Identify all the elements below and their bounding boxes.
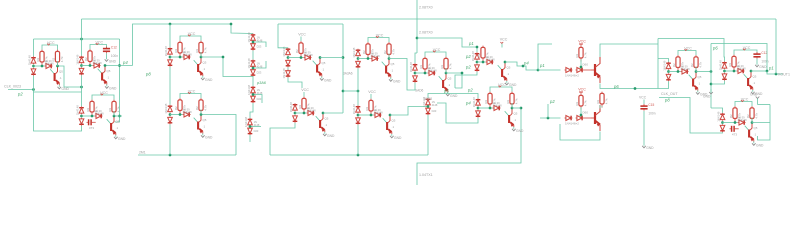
svg-text:C12: C12 — [761, 51, 767, 55]
label XOUT1 — [778, 73, 790, 77]
svg-text:1N4148: 1N4148 — [409, 62, 413, 73]
diode S4b — [248, 127, 259, 135]
diode S1b — [251, 43, 262, 51]
label 1.04TX1 — [419, 173, 433, 177]
wire G5 third diode out — [288, 78, 302, 89]
label p1 drv — [539, 63, 545, 68]
svg-text:R2: R2 — [84, 57, 88, 61]
svg-text:D60: D60 — [583, 111, 589, 115]
node base gate2 — [80, 64, 92, 67]
svg-text:p1: p1 — [539, 63, 545, 68]
svg-text:R2: R2 — [195, 106, 199, 110]
svg-text:R2: R2 — [174, 106, 178, 110]
wire G1 out — [58, 66, 83, 88]
diode D2c series — [93, 58, 103, 68]
transistor Q7 — [439, 72, 452, 92]
diode D12b input — [168, 116, 173, 124]
wire S4 bottom — [249, 135, 251, 142]
capacitor Cb gate11 — [87, 119, 96, 130]
wire H6 out — [323, 112, 343, 114]
svg-text:VCC: VCC — [500, 38, 508, 42]
label 3A3A6 — [343, 72, 353, 76]
wire collector gate12 — [200, 110, 202, 115]
wire C10 down — [756, 59, 758, 63]
svg-text:CLK_0023: CLK_0023 — [4, 85, 21, 89]
svg-text:1N4148: 1N4148 — [737, 67, 747, 71]
diode S2b — [251, 69, 262, 77]
wire S2 tap — [252, 61, 266, 69]
svg-text:GND: GND — [324, 79, 332, 83]
svg-text:·1: ·1 — [107, 76, 110, 80]
wire drv1 out — [600, 81, 669, 90]
node base gate10 — [723, 70, 736, 73]
supply VCC gate6 — [368, 33, 389, 42]
svg-text:1N4148: 1N4148 — [374, 111, 384, 115]
diode D6a input — [352, 47, 360, 58]
svg-text:·1: ·1 — [59, 76, 62, 80]
diode D31a — [565, 116, 573, 121]
wire H5 in a — [711, 108, 723, 113]
ground C15 — [642, 144, 654, 150]
diode D11a input — [76, 105, 84, 116]
transistor Q9 — [689, 70, 702, 90]
supply gnd topright1 — [703, 89, 713, 99]
svg-text:1N4148: 1N4148 — [307, 109, 317, 113]
label 3PA6 — [256, 81, 267, 85]
ground gate11 — [114, 135, 126, 141]
wire drv2 collector link — [599, 105, 601, 109]
wire drv2 in — [540, 117, 561, 120]
transistor Q16 — [316, 112, 329, 132]
transistor Q31 — [584, 105, 601, 131]
svg-text:GND: GND — [327, 134, 335, 138]
capacitor Cb gate15 — [730, 126, 739, 137]
wire C15 gnd — [643, 111, 645, 144]
wire x343 to G6/H3 column — [343, 90, 359, 93]
transistor Q6 — [382, 57, 395, 77]
svg-text:VCC: VCC — [578, 40, 586, 44]
resistor R6b 4.7k — [383, 42, 395, 58]
wire G5 in top — [278, 24, 288, 48]
capacitor C2 100n — [103, 45, 118, 58]
label p2 g8 — [465, 54, 471, 59]
svg-text:·1: ·1 — [203, 67, 206, 71]
supply VCC gate3 — [180, 32, 201, 41]
diode D7b input — [413, 75, 418, 83]
diode D15c series — [738, 115, 748, 125]
svg-text:Q5: Q5 — [322, 61, 326, 65]
svg-text:D23: D23 — [257, 97, 262, 101]
diode D5c series — [304, 50, 314, 60]
supply VCC gate7 — [425, 48, 446, 57]
svg-text:p8: p8 — [145, 72, 151, 77]
svg-text:1N4148: 1N4148 — [738, 118, 748, 122]
svg-text:4.7k: 4.7k — [392, 49, 396, 55]
diode D5b input — [286, 59, 291, 67]
supply VCC gate5 — [298, 32, 306, 41]
node base gate3 — [169, 56, 183, 59]
resistor R31 4.7k — [575, 94, 587, 110]
wire G9 box top — [658, 39, 725, 62]
wire S links — [250, 51, 253, 119]
capacitor C10 100n — [753, 51, 768, 64]
wire S4 tap — [249, 125, 261, 128]
wire G10 out XOUT1 — [751, 70, 783, 76]
label p1 — [468, 41, 474, 46]
diode S2a — [247, 58, 263, 69]
svg-text:R2: R2 — [365, 106, 369, 110]
wire CLK stub — [8, 88, 35, 91]
svg-text:R2: R2 — [596, 99, 600, 103]
svg-text:GND: GND — [205, 78, 213, 82]
svg-text:p1: p1 — [768, 66, 774, 71]
resistor R11b 4.7k — [108, 100, 120, 116]
wire collector gate6 — [388, 54, 390, 59]
svg-text:p4: p4 — [523, 61, 529, 66]
supply VCC C15 — [639, 96, 647, 105]
svg-text:1N4148: 1N4148 — [681, 67, 691, 71]
diode D1b input — [31, 68, 36, 76]
node base gate8 — [476, 61, 486, 64]
svg-text:p6: p6 — [712, 46, 718, 51]
diode D16a input — [289, 102, 297, 113]
resistor R14b 4.7k — [506, 92, 518, 108]
svg-text:1N4148: 1N4148 — [304, 53, 314, 57]
label p6 right — [712, 46, 718, 51]
wire bus x658 — [657, 39, 659, 89]
diode D12a input — [164, 103, 172, 114]
diode D8c series — [486, 55, 496, 65]
svg-text:R2: R2 — [729, 114, 733, 118]
svg-text:Q5: Q5 — [698, 75, 702, 79]
svg-text:1N4148: 1N4148 — [352, 47, 356, 58]
svg-text:Q5: Q5 — [59, 70, 63, 74]
svg-text:4T3: 4T3 — [732, 132, 738, 136]
diode D14a input — [472, 97, 480, 108]
diode D13a input — [352, 104, 360, 115]
svg-text:GND: GND — [62, 87, 70, 91]
svg-text:Q5: Q5 — [391, 62, 395, 66]
svg-text:100n: 100n — [648, 112, 655, 116]
svg-text:1N4148: 1N4148 — [719, 60, 723, 71]
wire G2 out — [105, 65, 133, 67]
wire G2-H1 column — [81, 75, 83, 106]
wire G9 in a — [658, 59, 669, 62]
transistor Q12 — [194, 113, 207, 133]
resistor R15a 4.7k — [729, 106, 741, 124]
svg-text:3A3A6: 3A3A6 — [343, 72, 353, 76]
wire H2 out — [201, 115, 236, 156]
wire G9 out bus x711 — [696, 44, 712, 109]
resistor R9a 4.7k — [672, 55, 684, 73]
resistor R7b 4.7k — [440, 57, 452, 73]
ground capacitor C2 — [105, 58, 117, 64]
svg-text:1N4148: 1N4148 — [282, 68, 286, 79]
wire clock top rail y19 — [82, 18, 777, 20]
wire collector gate9 — [695, 67, 697, 72]
svg-text:100n: 100n — [111, 54, 118, 58]
label 3AD8 — [424, 97, 432, 101]
net 2.08TX0 vertical — [416, 0, 419, 53]
diode D12c series — [183, 107, 193, 117]
svg-text:2M1: 2M1 — [139, 151, 146, 155]
svg-text:4148: 4148 — [432, 103, 438, 107]
wire G2 input riser x81.5 — [81, 19, 83, 56]
transistor Q13 — [383, 114, 396, 134]
resistor R12b 4.7k — [195, 98, 207, 114]
svg-text:1N4148: 1N4148 — [95, 112, 105, 116]
transistor Q15 — [745, 121, 758, 141]
svg-text:·1: ·1 — [753, 81, 756, 85]
svg-text:1N4148: 1N4148 — [247, 32, 251, 43]
diode D3a input — [164, 46, 172, 57]
wire C2 down — [106, 53, 108, 57]
diode D3b input — [168, 59, 173, 67]
svg-text:R2: R2 — [298, 104, 302, 108]
ground gate7 — [446, 92, 458, 98]
svg-text:Q5: Q5 — [754, 126, 758, 130]
diode D14c series — [493, 101, 503, 111]
resistor R8a 4.7k — [477, 46, 489, 64]
diode D16b input — [293, 115, 298, 123]
ground gate9 — [696, 91, 708, 97]
node base gate1 — [32, 65, 44, 68]
svg-text:GND: GND — [118, 137, 126, 141]
diode D6b input — [356, 60, 361, 68]
node base gate16 — [294, 112, 307, 115]
svg-text:GND: GND — [646, 146, 654, 150]
diode D14b input — [476, 110, 481, 118]
svg-text:GND: GND — [756, 144, 764, 148]
svg-text:4.7k: 4.7k — [605, 98, 609, 104]
resistor R16a 4.7k — [298, 97, 310, 115]
transistor Q5 — [313, 56, 326, 76]
label p4 — [122, 60, 128, 65]
svg-text:Q5: Q5 — [203, 118, 207, 122]
svg-text:3AD8: 3AD8 — [424, 97, 432, 101]
supply VCC gate8 — [500, 38, 508, 48]
wire feedback y39 — [34, 38, 120, 41]
svg-text:R2: R2 — [108, 107, 112, 111]
diode D7a input — [409, 62, 417, 73]
svg-text:GND: GND — [750, 93, 758, 97]
wire G5 out — [320, 57, 343, 59]
svg-text:p1: p1 — [468, 41, 474, 46]
diode D9b input — [666, 73, 671, 81]
wire p4 bus x119.5 — [115, 39, 121, 122]
supply VCC gate13 — [368, 90, 376, 99]
label 2M1 — [139, 151, 146, 155]
wire H5 loop — [659, 98, 723, 134]
diode D2b input — [79, 67, 84, 75]
svg-text:VCC: VCC — [298, 32, 306, 36]
svg-text:2.08TX0: 2.08TX0 — [419, 31, 433, 35]
node base gate9 — [667, 70, 680, 73]
diode D10a input — [719, 60, 727, 71]
supply VCC gate12 — [180, 89, 201, 98]
diode D13c series — [374, 108, 384, 118]
supply VCC gate15 — [735, 97, 752, 106]
svg-text:p2: p2 — [549, 99, 555, 104]
svg-text:·1: ·1 — [507, 72, 510, 76]
svg-text:R2: R2 — [295, 49, 299, 53]
resistor R3a 4.7k — [174, 41, 186, 59]
node base gate11 — [80, 115, 94, 118]
svg-text:p3A6: p3A6 — [256, 81, 267, 85]
transistor Q30 — [584, 57, 601, 83]
resistor R1b 4.7k — [52, 50, 64, 66]
wire collector gate15 — [751, 118, 753, 123]
supply VCC driver31 — [578, 88, 586, 94]
capacitor C15 100n — [640, 103, 655, 116]
label p2 h4 — [467, 88, 473, 93]
svg-text:D23: D23 — [254, 129, 259, 133]
diode D8a input — [471, 51, 479, 62]
wire drv1 in — [538, 69, 561, 71]
diode D11c series — [95, 109, 105, 119]
svg-text:R2: R2 — [52, 57, 56, 61]
ground gate16 — [323, 132, 335, 138]
svg-text:4.7k: 4.7k — [584, 100, 588, 106]
supply VCC gate14 — [490, 83, 512, 92]
node base gate6 — [357, 57, 371, 60]
wire S1 tap — [252, 41, 266, 47]
supply VCC gate2 — [90, 40, 107, 49]
svg-text:1N4148: 1N4148 — [76, 105, 80, 116]
diode D1c series — [45, 59, 55, 69]
node driver31 — [580, 107, 589, 118]
svg-text:Q5: Q5 — [325, 117, 329, 121]
resistor R12a 4.7k — [174, 98, 186, 116]
ground capacitor C10 — [755, 63, 767, 69]
diode S3b — [251, 95, 262, 103]
diode D8b input — [475, 64, 480, 72]
svg-text:·1: ·1 — [514, 118, 517, 122]
transistor Q10 — [744, 70, 757, 90]
svg-text:R2: R2 — [477, 53, 481, 57]
wire H1 out stub — [114, 115, 122, 117]
svg-text:4.7k: 4.7k — [755, 113, 759, 119]
svg-text:4.7k: 4.7k — [515, 98, 519, 104]
wire collector gate7 — [445, 68, 447, 73]
svg-text:·1: ·1 — [391, 69, 394, 73]
svg-text:XOUT1: XOUT1 — [778, 73, 790, 77]
supply gnd topright2 — [750, 93, 759, 105]
ground gate13 — [390, 134, 402, 140]
label p1 out — [768, 66, 774, 71]
svg-text:Q5: Q5 — [514, 112, 518, 116]
ground gate5 — [320, 77, 332, 83]
supply VCC gate11 — [92, 91, 114, 100]
transistor Q8 — [498, 61, 511, 81]
svg-text:p2: p2 — [465, 65, 471, 70]
label p8 out — [664, 98, 670, 103]
svg-text:C15: C15 — [648, 103, 654, 107]
diode D15a input — [717, 111, 725, 122]
svg-text:GND: GND — [393, 80, 401, 84]
diode D9c series — [681, 64, 691, 74]
wire final box top — [711, 44, 767, 72]
svg-text:GND: GND — [703, 95, 711, 99]
resistor R3b 4.7k — [195, 41, 207, 57]
ground gate2 — [105, 85, 117, 91]
svg-text:1N4148×2: 1N4148×2 — [565, 74, 579, 78]
resistor R9b 4.7k — [690, 55, 702, 71]
ground gate10 — [751, 90, 763, 96]
ground gate12 — [201, 134, 213, 140]
svg-text:1N4148: 1N4148 — [428, 69, 438, 73]
wire G10 in b — [711, 81, 725, 84]
svg-text:1N4148: 1N4148 — [352, 104, 356, 115]
svg-text:1N4148: 1N4148 — [183, 53, 193, 57]
svg-text:Q5: Q5 — [448, 77, 452, 81]
svg-text:1N4148: 1N4148 — [247, 58, 251, 69]
svg-text:p6: p6 — [613, 84, 619, 89]
diode S3a — [247, 84, 263, 95]
svg-text:GND: GND — [509, 83, 517, 87]
wire drv1 collector loop — [600, 44, 658, 57]
svg-text:R2: R2 — [506, 99, 510, 103]
svg-text:p2: p2 — [467, 88, 473, 93]
label p4 h4 — [465, 101, 471, 106]
resistor R31b 4.7k — [596, 92, 608, 108]
svg-text:R2: R2 — [575, 53, 579, 57]
ground gate3 — [201, 76, 213, 82]
wire H4 in b loop — [437, 103, 478, 123]
svg-text:·1: ·1 — [203, 125, 206, 129]
node driver30 — [580, 59, 589, 70]
svg-text:4.7k: 4.7k — [699, 62, 703, 68]
svg-text:CLK_OUT: CLK_OUT — [661, 92, 678, 96]
svg-text:p2: p2 — [465, 54, 471, 59]
wire collector gate14 — [511, 103, 513, 108]
wire H3 col to railB — [357, 125, 359, 155]
diode S1a — [247, 32, 263, 43]
wire G7 out — [446, 72, 463, 88]
ground gate6 — [389, 78, 401, 84]
diode D5a input — [282, 46, 290, 57]
svg-text:R2: R2 — [86, 107, 90, 111]
supply VCC gate10 — [734, 46, 757, 55]
resistor R7a 4.7k — [419, 57, 431, 75]
diode D15b input — [720, 124, 725, 132]
svg-text:·1: ·1 — [322, 68, 325, 72]
label SAD6 — [415, 89, 424, 93]
transistor Q3 — [194, 56, 207, 76]
svg-text:4.7k: 4.7k — [584, 52, 588, 58]
svg-text:1.04TX1: 1.04TX1 — [419, 173, 433, 177]
diode D10c series — [737, 64, 747, 74]
svg-text:1N4148: 1N4148 — [76, 54, 80, 65]
ground gate14 — [512, 127, 524, 133]
wire drv2 riser — [547, 104, 549, 118]
svg-text:1N4148: 1N4148 — [371, 54, 381, 58]
resistor R5a 4.7k — [295, 41, 307, 59]
diode D6c series — [371, 51, 381, 61]
wire S8 top to H4 — [428, 94, 478, 99]
label p6 drv — [613, 84, 619, 89]
svg-text:VCC: VCC — [301, 88, 309, 92]
svg-text:D23: D23 — [257, 45, 262, 49]
wire clock drop G3 — [169, 24, 171, 47]
svg-text:SAD6: SAD6 — [415, 89, 424, 93]
svg-text:4.7k: 4.7k — [204, 105, 208, 111]
wire G3-H2 column — [169, 67, 171, 105]
svg-text:R2: R2 — [728, 62, 732, 66]
svg-text:1N4148: 1N4148 — [183, 110, 193, 114]
svg-text:R2: R2 — [746, 114, 750, 118]
svg-text:p8: p8 — [664, 98, 670, 103]
